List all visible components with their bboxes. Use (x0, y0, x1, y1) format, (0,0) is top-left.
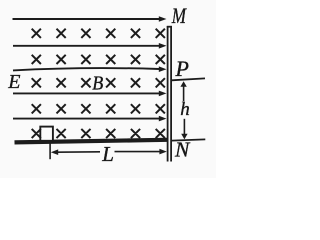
svg-text:L: L (101, 142, 114, 166)
svg-text:B: B (92, 73, 103, 95)
svg-text:h: h (180, 99, 190, 120)
svg-text:P: P (175, 56, 189, 81)
svg-text:E: E (7, 71, 20, 93)
svg-text:N: N (174, 137, 191, 161)
svg-text:M: M (171, 3, 187, 28)
